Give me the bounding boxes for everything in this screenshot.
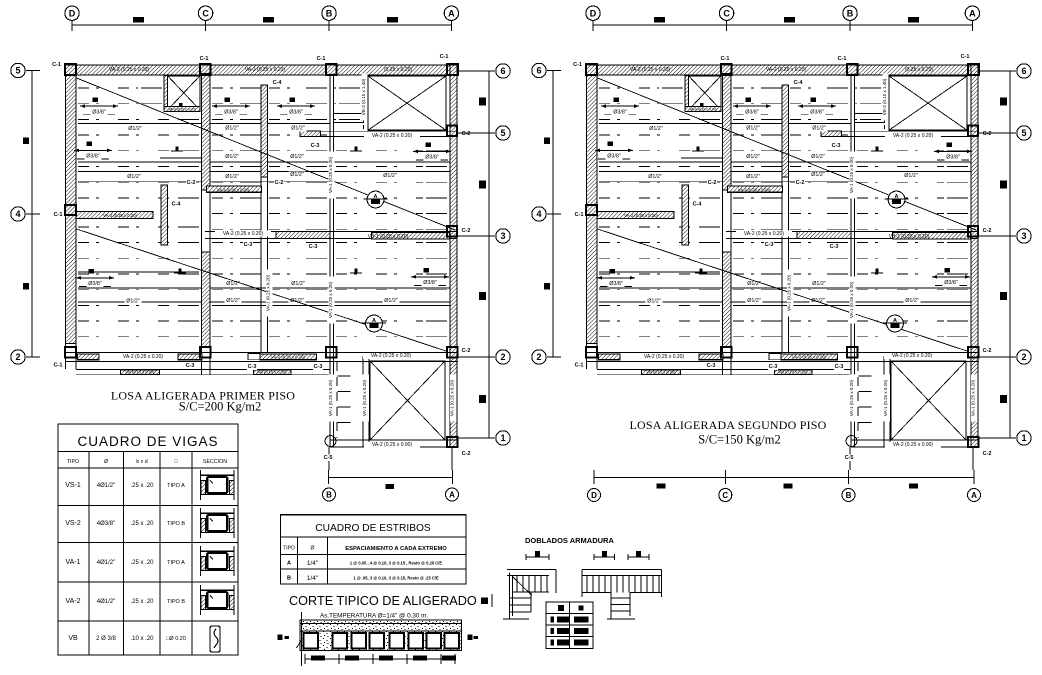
svg-text:LOSA ALIGERADA SEGUNDO PISO: LOSA ALIGERADA SEGUNDO PISO	[629, 418, 826, 432]
table CUADRO DE ESTRIBOS	[281, 515, 467, 584]
svg-text:A: A	[287, 561, 291, 567]
svg-text:A: A	[971, 491, 977, 500]
svg-text:.25 x .20: .25 x .20	[130, 483, 154, 489]
svg-text:S/C=200 Kg/m2: S/C=200 Kg/m2	[179, 400, 261, 414]
svg-text:1/4": 1/4"	[307, 575, 319, 582]
second floor slab plan	[572, 6, 1031, 470]
svg-text:B: B	[326, 490, 332, 499]
svg-text:B: B	[287, 576, 291, 582]
svg-text:TIPO: TIPO	[283, 546, 295, 552]
svg-text:.25 x .20: .25 x .20	[130, 599, 154, 605]
svg-text:VS-1: VS-1	[65, 482, 81, 489]
svg-text:DOBLADOS ARMADURA: DOBLADOS ARMADURA	[525, 536, 614, 545]
svg-text:4Ø1/2": 4Ø1/2"	[97, 560, 115, 566]
svg-text:4: 4	[15, 209, 20, 219]
bottom grid line first plan	[329, 477, 453, 479]
svg-text:CUADRO DE ESTRIBOS: CUADRO DE ESTRIBOS	[315, 523, 431, 534]
svg-text:4Ø3/8": 4Ø3/8"	[97, 521, 115, 527]
svg-text:□Ø 0.20: □Ø 0.20	[166, 636, 186, 642]
svg-text:TIPO B: TIPO B	[167, 599, 185, 605]
svg-text:ESPACIAMIENTO A CADA EXTREMO: ESPACIAMIENTO A CADA EXTREMO	[345, 546, 447, 552]
bottom grid line second plan	[594, 477, 974, 479]
svg-text:S/C=150 Kg/m2: S/C=150 Kg/m2	[698, 433, 780, 447]
svg-text:D: D	[591, 491, 597, 500]
svg-text:VA-1: VA-1	[65, 559, 80, 566]
svg-text:C: C	[722, 491, 728, 500]
svg-text:4Ø1/2": 4Ø1/2"	[97, 483, 115, 489]
svg-text:Ø: Ø	[104, 459, 108, 465]
svg-text:.25 x .20: .25 x .20	[130, 521, 154, 527]
svg-text:SECCION: SECCION	[203, 459, 227, 465]
svg-text:TIPO A: TIPO A	[167, 560, 185, 566]
svg-text:1 @ .05, 3 @ 0.10, 3 @ 0.15,: 1 @ .05, 3 @ 0.10, 3 @ 0.15, Resto @ .25…	[353, 575, 439, 580]
svg-text:VA-2: VA-2	[65, 598, 80, 605]
svg-text:.25 x .20: .25 x .20	[130, 560, 154, 566]
svg-text:Ø: Ø	[311, 546, 315, 552]
svg-text:CUADRO DE VIGAS: CUADRO DE VIGAS	[77, 434, 218, 449]
svg-text:.10 x .20: .10 x .20	[130, 636, 154, 642]
svg-text:b x d: b x d	[136, 459, 148, 465]
svg-text:As.TEMPERATURA Ø=1/4" @ 0.30 m: As.TEMPERATURA Ø=1/4" @ 0.30 m.	[320, 613, 428, 620]
svg-text:2: 2	[15, 352, 20, 362]
svg-text:4: 4	[536, 209, 541, 219]
svg-text:6: 6	[536, 66, 541, 76]
svg-text:4Ø1/2": 4Ø1/2"	[97, 599, 115, 605]
svg-text:1/4": 1/4"	[307, 560, 319, 567]
svg-text:B: B	[846, 491, 852, 500]
first floor slab plan	[51, 6, 510, 470]
svg-text:VS-2: VS-2	[65, 520, 81, 527]
svg-text:1 @ 0.05 , 4 @ 0.10, 3 @ 0.15: 1 @ 0.05 , 4 @ 0.10, 3 @ 0.15 , Resto @ …	[350, 560, 442, 565]
svg-text:2 Ø 3/8: 2 Ø 3/8	[96, 636, 116, 642]
svg-text:TIPO B: TIPO B	[167, 521, 185, 527]
svg-text:A: A	[449, 490, 455, 499]
left grid circles first plan	[31, 71, 33, 358]
svg-text:CORTE TIPICO DE ALIGERADO: CORTE TIPICO DE ALIGERADO	[289, 594, 477, 608]
svg-text:5: 5	[15, 66, 20, 76]
svg-text:2: 2	[536, 352, 541, 362]
svg-text:VB: VB	[68, 635, 78, 642]
left grid circles second plan	[552, 71, 554, 358]
svg-text:TIPO: TIPO	[67, 459, 79, 465]
svg-text:TIPO A: TIPO A	[167, 483, 185, 489]
table CUADRO DE VIGAS	[58, 424, 238, 655]
